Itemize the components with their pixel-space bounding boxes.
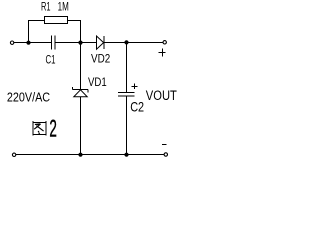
minus sign at - terminal (162, 143, 167, 145)
terminal bottom-right (-) (164, 153, 167, 156)
wire top rail mid segment (C1 right plate to VD2 anode) (56, 42, 97, 44)
capacitor C2 (118, 93, 135, 97)
capacitor C1 (52, 36, 56, 50)
terminal top-right (+) (163, 41, 166, 44)
label figure 2 : hanzi TU (drawn) (32, 121, 46, 136)
wire VD1 top lead (node B down to zener bar) (80, 43, 82, 90)
node D junction dot (VD1 to bottom rail) (78, 153, 82, 157)
terminal top-left (10, 41, 13, 44)
C2 plus polarity mark (131, 83, 137, 89)
wire top rail right segment (VD2 cathode to + terminal) (104, 42, 163, 44)
node E junction dot (C2 to bottom rail) (124, 153, 128, 157)
svg-text:VOUT: VOUT (146, 88, 177, 103)
svg-text:C1: C1 (46, 52, 56, 66)
svg-text:1M: 1M (58, 0, 69, 14)
svg-text:VD2: VD2 (91, 52, 110, 66)
svg-text:2: 2 (49, 116, 57, 143)
wire C2 bottom lead (126, 96, 128, 155)
wire C2 top lead (node C down to plate) (126, 43, 128, 93)
wire resistor left lead (29, 20, 45, 22)
terminal bottom-left (12, 153, 15, 156)
svg-text:VD1: VD1 (88, 75, 107, 89)
wire resistor right lead (68, 20, 81, 22)
wire VD1 bottom lead (zener to bottom rail) (80, 97, 82, 155)
plus sign at + terminal (159, 49, 166, 57)
svg-text:C2: C2 (130, 99, 144, 115)
diode VD2 (97, 36, 105, 49)
wire top rail left segment (terminal to C1 left plate) (14, 42, 51, 44)
svg-text:220V/AC: 220V/AC (7, 89, 50, 104)
node C junction dot (124, 40, 128, 44)
node B junction dot (78, 41, 82, 45)
svg-text:R1: R1 (41, 0, 51, 14)
wire bottom rail (16, 154, 164, 156)
zener diode VD1 (73, 87, 89, 97)
resistor R1 (45, 17, 68, 24)
wire right branch vertical (R1 down to node B) (80, 20, 82, 43)
node A junction dot (26, 41, 30, 45)
wire left branch vertical (node A up to R1) (28, 20, 30, 43)
